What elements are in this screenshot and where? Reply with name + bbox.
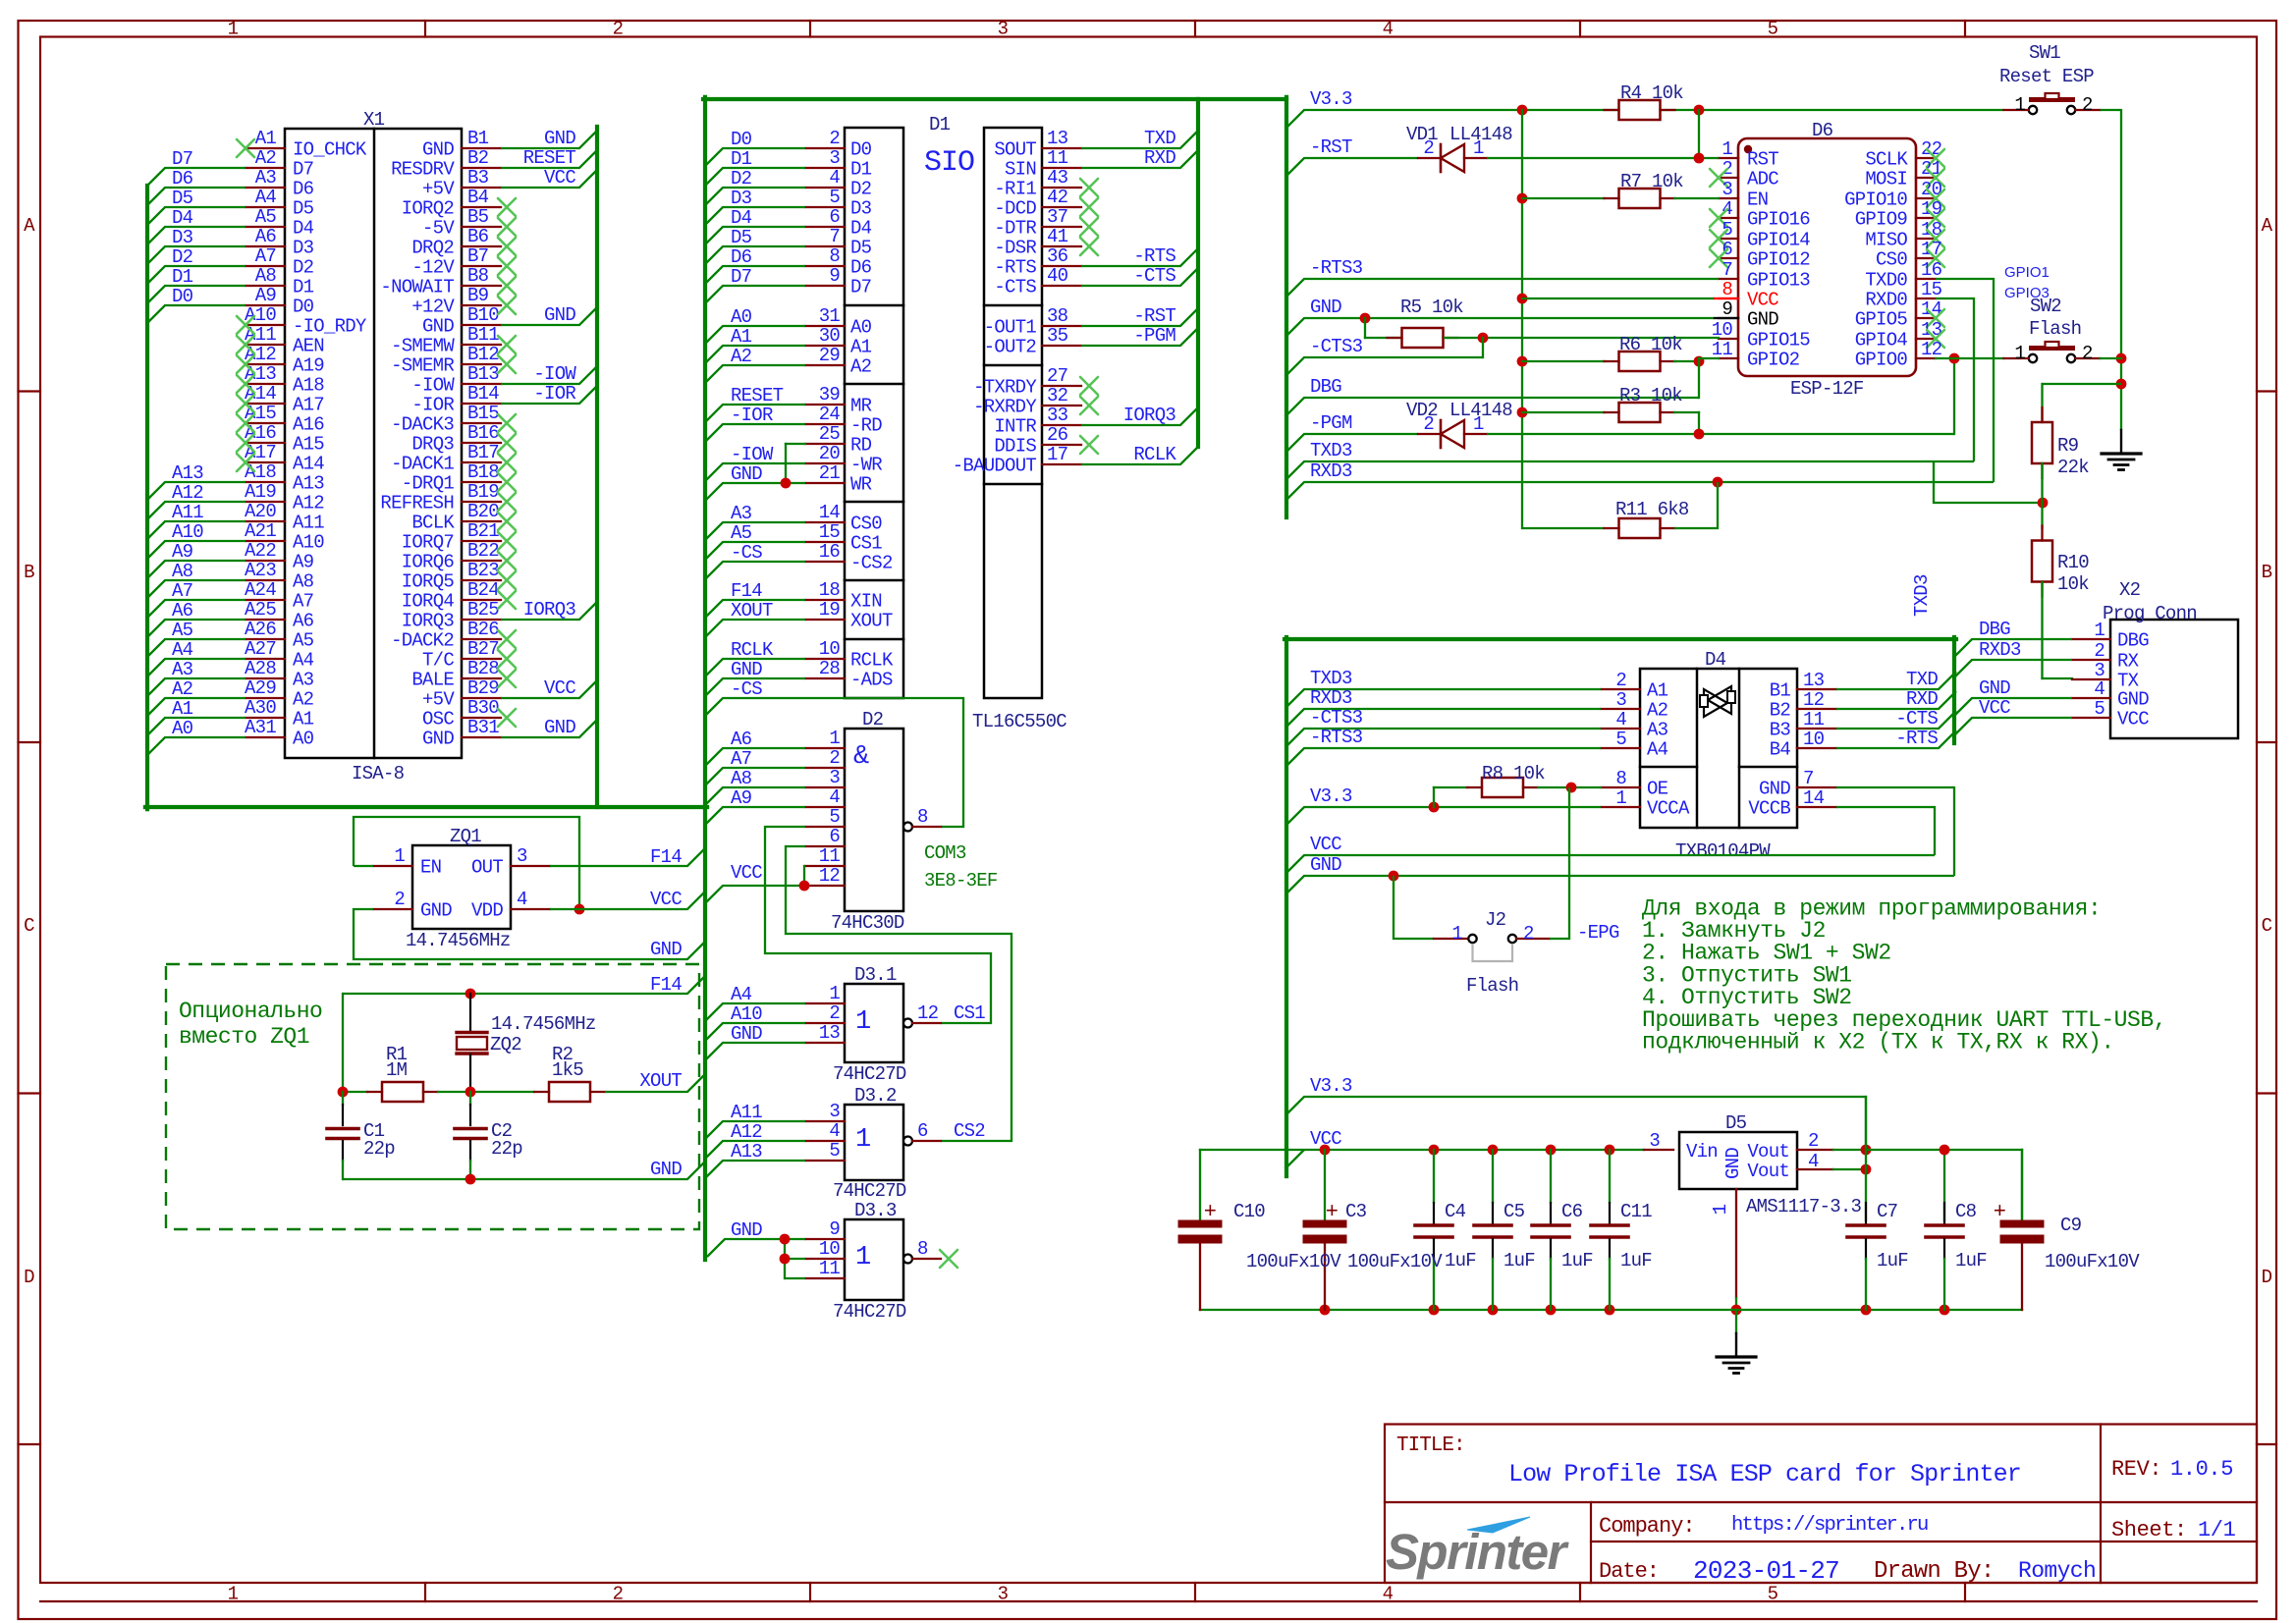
- svg-text:GND: GND: [1722, 1148, 1744, 1179]
- svg-text:4: 4: [1383, 1584, 1394, 1605]
- svg-text:Vout: Vout: [1747, 1141, 1789, 1163]
- svg-text:ISA-8: ISA-8: [352, 763, 405, 784]
- svg-text:18: 18: [1921, 219, 1942, 241]
- svg-text:14: 14: [1921, 298, 1942, 320]
- svg-text:-5V: -5V: [422, 218, 455, 240]
- svg-text:14: 14: [819, 502, 841, 523]
- svg-text:-EPG: -EPG: [1577, 922, 1619, 944]
- svg-text:A0: A0: [731, 306, 752, 328]
- svg-text:A14: A14: [293, 454, 324, 475]
- svg-text:B3: B3: [467, 167, 489, 189]
- svg-text:RXD3: RXD3: [1979, 639, 2021, 661]
- svg-text:22p: 22p: [491, 1138, 522, 1160]
- svg-text:Sprinter: Sprinter: [1386, 1524, 1569, 1580]
- svg-text:8: 8: [829, 245, 840, 267]
- svg-text:GND: GND: [731, 463, 762, 485]
- svg-text:CS2: CS2: [954, 1120, 985, 1142]
- svg-text:D4: D4: [850, 218, 872, 240]
- svg-text:EN: EN: [420, 857, 441, 879]
- svg-text:D3: D3: [850, 198, 872, 220]
- svg-text:1: 1: [855, 1243, 870, 1272]
- svg-text:T/C: T/C: [422, 650, 454, 672]
- svg-text:R8 10k: R8 10k: [1482, 763, 1545, 784]
- svg-text:21: 21: [1921, 158, 1942, 180]
- svg-text:2: 2: [1423, 413, 1434, 435]
- svg-text:C4: C4: [1445, 1201, 1466, 1222]
- svg-text:D5: D5: [850, 238, 872, 259]
- svg-text:A11: A11: [293, 513, 324, 534]
- svg-text:5: 5: [1768, 1584, 1778, 1605]
- svg-text:C: C: [24, 915, 34, 937]
- svg-text:B10: B10: [467, 304, 499, 326]
- svg-text:IORQ4: IORQ4: [402, 591, 455, 613]
- svg-text:B20: B20: [467, 501, 499, 522]
- svg-text:VCC: VCC: [1310, 834, 1341, 855]
- svg-text:-RTS: -RTS: [1895, 728, 1938, 749]
- svg-text:1/1: 1/1: [2198, 1518, 2236, 1542]
- svg-text:1: 1: [2014, 94, 2025, 116]
- svg-text:-RI1: -RI1: [994, 179, 1036, 200]
- svg-text:14.7456MHz: 14.7456MHz: [406, 930, 511, 951]
- svg-text:33: 33: [1047, 405, 1068, 426]
- svg-text:28: 28: [819, 658, 841, 679]
- svg-text:-DRQ1: -DRQ1: [402, 473, 455, 495]
- svg-text:9: 9: [829, 265, 840, 287]
- svg-text:A1: A1: [731, 326, 752, 348]
- svg-text:A1: A1: [172, 698, 193, 720]
- svg-text:D7: D7: [293, 159, 313, 181]
- svg-text:R7 10k: R7 10k: [1620, 171, 1683, 192]
- svg-text:RXD0: RXD0: [1865, 290, 1907, 311]
- svg-text:A1: A1: [850, 337, 872, 358]
- svg-text:1: 1: [855, 1125, 870, 1155]
- svg-text:A9: A9: [731, 787, 752, 809]
- svg-text:RST: RST: [1747, 149, 1778, 171]
- svg-text:VCC: VCC: [650, 889, 682, 910]
- svg-text:D2: D2: [293, 257, 314, 279]
- svg-text:ADC: ADC: [1747, 169, 1778, 190]
- svg-text:VCC: VCC: [544, 677, 575, 699]
- svg-text:1: 1: [394, 845, 405, 867]
- svg-text:-DACK1: -DACK1: [391, 454, 454, 475]
- svg-text:D3.1: D3.1: [854, 964, 897, 986]
- svg-text:A2: A2: [1647, 700, 1668, 722]
- svg-text:GND: GND: [422, 316, 454, 338]
- svg-text:OSC: OSC: [422, 709, 454, 730]
- svg-text:-SMEMW: -SMEMW: [391, 336, 455, 357]
- svg-text:32: 32: [1047, 385, 1068, 406]
- svg-text:2: 2: [1523, 923, 1534, 945]
- svg-text:15: 15: [819, 521, 841, 543]
- svg-text:Romych: Romych: [2018, 1558, 2096, 1584]
- svg-text:V3.3: V3.3: [1310, 785, 1352, 807]
- svg-text:1: 1: [228, 19, 239, 40]
- svg-text:26: 26: [1047, 424, 1068, 446]
- svg-text:D0: D0: [172, 286, 193, 307]
- svg-text:Vout: Vout: [1747, 1161, 1789, 1182]
- svg-text:SIN: SIN: [1005, 159, 1036, 181]
- svg-text:2: 2: [613, 19, 624, 40]
- svg-text:GPIO1: GPIO1: [2004, 264, 2050, 281]
- svg-text:13: 13: [819, 1022, 841, 1044]
- svg-text:-OUT1: -OUT1: [984, 317, 1037, 339]
- svg-text:+5V: +5V: [422, 689, 455, 711]
- svg-text:DBG: DBG: [1310, 376, 1341, 398]
- svg-text:ZQ1: ZQ1: [450, 826, 481, 847]
- svg-text:4: 4: [2094, 678, 2105, 700]
- svg-text:100uFx10V: 100uFx10V: [1246, 1251, 1341, 1272]
- svg-text:1uF: 1uF: [1561, 1250, 1593, 1271]
- svg-text:MR: MR: [850, 396, 872, 417]
- svg-text:D3.3: D3.3: [854, 1200, 897, 1221]
- svg-text:INTR: INTR: [994, 416, 1036, 438]
- svg-text:D2: D2: [850, 179, 872, 200]
- svg-text:3: 3: [517, 845, 527, 867]
- svg-text:C10: C10: [1233, 1201, 1265, 1222]
- svg-text:2: 2: [829, 747, 840, 769]
- svg-text:B30: B30: [467, 697, 499, 719]
- svg-text:REV:: REV:: [2111, 1457, 2161, 1482]
- svg-text:4: 4: [829, 786, 840, 808]
- svg-text:IORQ2: IORQ2: [402, 198, 455, 220]
- svg-text:3: 3: [1615, 689, 1626, 711]
- svg-text:подключенный к X2 (TX к TX,RX: подключенный к X2 (TX к TX,RX к RX).: [1642, 1030, 2114, 1055]
- svg-text:GND: GND: [544, 304, 575, 326]
- svg-text:BALE: BALE: [411, 670, 454, 691]
- svg-text:GND: GND: [422, 729, 454, 750]
- svg-text:+5V: +5V: [422, 179, 455, 200]
- svg-text:RX: RX: [2117, 651, 2140, 673]
- svg-text:1.0.5: 1.0.5: [2170, 1457, 2233, 1482]
- svg-text:VCC: VCC: [544, 167, 575, 189]
- svg-text:B9: B9: [467, 285, 489, 306]
- svg-text:+: +: [1994, 1200, 2005, 1224]
- svg-text:GPIO10: GPIO10: [1844, 189, 1907, 211]
- svg-text:GPIO4: GPIO4: [1855, 330, 1908, 352]
- svg-text:12: 12: [917, 1002, 939, 1024]
- svg-text:VDD: VDD: [471, 900, 503, 922]
- svg-text:A2: A2: [172, 678, 193, 700]
- svg-text:GND: GND: [2117, 689, 2149, 711]
- svg-text:12: 12: [1803, 689, 1825, 711]
- svg-text:A9: A9: [293, 552, 314, 573]
- svg-text:D4: D4: [293, 218, 314, 240]
- svg-text:D7: D7: [172, 148, 192, 170]
- svg-text:B3: B3: [1770, 720, 1791, 741]
- svg-text:MOSI: MOSI: [1865, 169, 1907, 190]
- svg-text:B22: B22: [467, 540, 499, 562]
- svg-text:2: 2: [2082, 343, 2093, 364]
- svg-text:GND: GND: [1759, 779, 1790, 800]
- svg-text:31: 31: [819, 305, 841, 327]
- svg-text:GND: GND: [1310, 297, 1341, 318]
- svg-text:1uF: 1uF: [1955, 1250, 1987, 1271]
- svg-text:D7: D7: [731, 266, 751, 288]
- svg-text:B27: B27: [467, 638, 499, 660]
- svg-text:A10: A10: [731, 1003, 762, 1025]
- svg-text:REFRESH: REFRESH: [380, 493, 454, 514]
- svg-text:GND: GND: [1747, 309, 1778, 331]
- svg-text:B6: B6: [467, 226, 489, 247]
- svg-text:VCC: VCC: [731, 862, 762, 884]
- svg-text:GND: GND: [544, 128, 575, 149]
- svg-text:25: 25: [819, 423, 841, 445]
- svg-text:D2: D2: [172, 246, 193, 268]
- svg-text:BCLK: BCLK: [411, 513, 455, 534]
- svg-text:SW1: SW1: [2029, 42, 2060, 64]
- svg-text:A8: A8: [293, 571, 314, 593]
- svg-text:B12: B12: [467, 344, 499, 365]
- svg-text:1: 1: [1451, 923, 1462, 945]
- svg-text:4: 4: [1615, 709, 1626, 730]
- svg-text:A5: A5: [255, 206, 277, 228]
- svg-text:AEN: AEN: [293, 336, 324, 357]
- svg-text:13: 13: [1803, 670, 1825, 691]
- svg-text:Drawn By:: Drawn By:: [1874, 1558, 1994, 1585]
- svg-text:TXD3: TXD3: [1911, 574, 1933, 617]
- svg-text:RCLK: RCLK: [850, 650, 894, 672]
- svg-text:A3: A3: [1647, 720, 1668, 741]
- svg-text:-IOW: -IOW: [731, 444, 774, 465]
- svg-text:1: 1: [855, 1007, 870, 1037]
- svg-text:D1: D1: [731, 148, 752, 170]
- svg-text:DDIS: DDIS: [994, 436, 1036, 458]
- svg-text:3: 3: [829, 147, 840, 169]
- svg-text:-IOR: -IOR: [731, 405, 773, 426]
- svg-text:-RTS3: -RTS3: [1310, 727, 1363, 748]
- svg-text:DRQ2: DRQ2: [411, 238, 454, 259]
- svg-text:9: 9: [829, 1218, 840, 1240]
- svg-text:-IO_RDY: -IO_RDY: [293, 316, 367, 338]
- svg-text:R5 10k: R5 10k: [1400, 297, 1463, 318]
- svg-text:DBG: DBG: [2117, 630, 2149, 652]
- svg-text:-PGM: -PGM: [1310, 412, 1352, 434]
- svg-text:D6: D6: [731, 246, 752, 268]
- svg-text:B11: B11: [467, 324, 499, 346]
- svg-text:A30: A30: [245, 697, 276, 719]
- svg-text:X2: X2: [2119, 579, 2141, 601]
- svg-text:B8: B8: [467, 265, 489, 287]
- svg-text:27: 27: [1047, 365, 1067, 387]
- svg-text:C5: C5: [1503, 1201, 1525, 1222]
- svg-text:7: 7: [829, 226, 840, 247]
- svg-text:DRQ3: DRQ3: [411, 434, 454, 456]
- svg-text:A0: A0: [293, 729, 314, 750]
- svg-text:1: 1: [829, 983, 840, 1004]
- svg-text:1: 1: [829, 728, 840, 749]
- svg-text:12: 12: [819, 865, 841, 887]
- svg-text:21: 21: [819, 462, 841, 484]
- svg-text:19: 19: [819, 599, 841, 621]
- svg-text:SIO: SIO: [924, 146, 974, 180]
- svg-text:-CTS3: -CTS3: [1310, 336, 1363, 357]
- svg-text:-NOWAIT: -NOWAIT: [380, 277, 454, 298]
- svg-text:3: 3: [1649, 1130, 1660, 1152]
- svg-text:-RD: -RD: [850, 415, 882, 437]
- svg-text:20: 20: [1921, 179, 1942, 200]
- svg-text:-DACK2: -DACK2: [391, 630, 454, 652]
- svg-text:42: 42: [1047, 187, 1068, 208]
- svg-text:3E8-3EF: 3E8-3EF: [924, 870, 998, 892]
- svg-text:A3: A3: [172, 659, 193, 680]
- svg-text:CS1: CS1: [850, 533, 882, 555]
- svg-text:8: 8: [1615, 768, 1626, 789]
- svg-text:74HC27D: 74HC27D: [833, 1301, 906, 1323]
- svg-text:7: 7: [1803, 768, 1814, 789]
- svg-text:EN: EN: [1747, 189, 1768, 211]
- svg-text:A7: A7: [293, 591, 313, 613]
- svg-text:R6 10k: R6 10k: [1619, 334, 1682, 355]
- svg-text:A12: A12: [172, 482, 203, 504]
- svg-text:OE: OE: [1647, 779, 1668, 800]
- svg-text:D1: D1: [293, 277, 314, 298]
- svg-text:CS1: CS1: [954, 1002, 985, 1024]
- svg-text:-12V: -12V: [411, 257, 455, 279]
- svg-text:1: 1: [1710, 1204, 1731, 1215]
- svg-text:MISO: MISO: [1865, 230, 1907, 251]
- svg-text:GPIO5: GPIO5: [1855, 309, 1908, 331]
- svg-text:1M: 1M: [386, 1059, 408, 1081]
- svg-text:SOUT: SOUT: [994, 139, 1036, 161]
- svg-text:TXD3: TXD3: [1310, 668, 1352, 689]
- svg-text:Prog Conn: Prog Conn: [2103, 603, 2197, 624]
- svg-text:R4 10k: R4 10k: [1620, 82, 1683, 104]
- svg-text:AMS1117-3.3: AMS1117-3.3: [1746, 1196, 1862, 1217]
- svg-text:D1: D1: [172, 266, 193, 288]
- svg-text:D3: D3: [172, 227, 193, 248]
- svg-text:-IOW: -IOW: [411, 375, 455, 397]
- svg-text:B24: B24: [467, 579, 499, 601]
- svg-text:4: 4: [829, 167, 840, 189]
- svg-text:OUT: OUT: [471, 857, 503, 879]
- svg-text:ESP-12F: ESP-12F: [1790, 378, 1864, 400]
- svg-text:GND: GND: [420, 900, 452, 922]
- svg-text:A12: A12: [731, 1121, 762, 1143]
- svg-text:36: 36: [1047, 245, 1068, 267]
- svg-text:+: +: [1204, 1200, 1216, 1224]
- svg-text:RESDRV: RESDRV: [391, 159, 455, 181]
- svg-text:IORQ3: IORQ3: [523, 599, 576, 621]
- svg-text:D4: D4: [731, 207, 752, 229]
- svg-text:GPIO12: GPIO12: [1747, 249, 1810, 271]
- svg-text:-RTS3: -RTS3: [1310, 257, 1363, 279]
- svg-text:&: &: [853, 742, 869, 772]
- svg-text:A19: A19: [245, 481, 276, 503]
- svg-text:D0: D0: [731, 129, 752, 150]
- svg-text:C: C: [2262, 915, 2272, 937]
- svg-text:B4: B4: [1770, 739, 1791, 761]
- svg-text:B31: B31: [467, 717, 499, 738]
- svg-text:17: 17: [1047, 444, 1067, 465]
- svg-text:B1: B1: [467, 128, 489, 149]
- svg-text:-CS: -CS: [731, 678, 762, 700]
- svg-text:A6: A6: [731, 729, 752, 750]
- svg-text:RXD: RXD: [1144, 147, 1175, 169]
- svg-text:2: 2: [1615, 670, 1626, 691]
- svg-text:A4: A4: [172, 639, 193, 661]
- svg-text:GPIO0: GPIO0: [1855, 350, 1908, 371]
- svg-text:GPIO13: GPIO13: [1747, 270, 1810, 292]
- svg-text:WR: WR: [850, 474, 872, 496]
- svg-text:3: 3: [998, 1584, 1009, 1605]
- svg-text:вместо ZQ1: вместо ZQ1: [179, 1024, 309, 1050]
- svg-text:1uF: 1uF: [1445, 1250, 1476, 1271]
- svg-text:A23: A23: [245, 560, 276, 581]
- svg-text:B16: B16: [467, 422, 499, 444]
- svg-text:14: 14: [1803, 787, 1825, 809]
- svg-text:24: 24: [819, 404, 841, 425]
- svg-text:A9: A9: [255, 285, 277, 306]
- svg-text:2: 2: [829, 1002, 840, 1024]
- svg-text:A22: A22: [245, 540, 276, 562]
- svg-text:D4: D4: [1705, 649, 1726, 671]
- svg-text:D6: D6: [293, 179, 314, 200]
- svg-text:1uF: 1uF: [1620, 1250, 1652, 1271]
- svg-text:3: 3: [1722, 179, 1732, 200]
- svg-text:2: 2: [2094, 640, 2105, 662]
- svg-text:TL16C550C: TL16C550C: [972, 711, 1066, 732]
- svg-text:13: 13: [1921, 319, 1942, 341]
- svg-text:11: 11: [1803, 709, 1825, 730]
- svg-text:GND: GND: [1979, 677, 2010, 699]
- svg-text:10k: 10k: [2057, 573, 2089, 595]
- svg-text:A5: A5: [172, 620, 193, 641]
- svg-text:COM3: COM3: [924, 842, 966, 864]
- svg-text:SCLK: SCLK: [1865, 149, 1908, 171]
- svg-text:100uFx10V: 100uFx10V: [2045, 1251, 2140, 1272]
- svg-text:40: 40: [1047, 265, 1068, 287]
- svg-text:GND: GND: [544, 717, 575, 738]
- svg-text:B: B: [2262, 562, 2272, 583]
- svg-text:3: 3: [829, 1101, 840, 1122]
- svg-text:4: 4: [829, 1120, 840, 1142]
- svg-text:XOUT: XOUT: [850, 611, 893, 632]
- svg-text:B2: B2: [1770, 700, 1791, 722]
- svg-text:100uFx10V: 100uFx10V: [1347, 1251, 1443, 1272]
- svg-text:10: 10: [1803, 729, 1825, 750]
- svg-text:R3 10k: R3 10k: [1619, 385, 1682, 406]
- svg-text:IO_CHCK: IO_CHCK: [293, 139, 367, 161]
- svg-text:5: 5: [2094, 698, 2105, 720]
- svg-text:RXD3: RXD3: [1310, 460, 1352, 482]
- svg-text:GPIO3: GPIO3: [2004, 285, 2050, 301]
- svg-text:39: 39: [819, 384, 841, 406]
- svg-text:10: 10: [819, 1238, 841, 1260]
- svg-text:+: +: [1326, 1200, 1338, 1224]
- svg-text:A10: A10: [293, 532, 324, 554]
- svg-text:A18: A18: [293, 375, 324, 397]
- svg-text:A27: A27: [245, 638, 276, 660]
- svg-text:TXD0: TXD0: [1865, 270, 1907, 292]
- svg-text:7: 7: [1722, 259, 1732, 281]
- svg-text:A3: A3: [293, 670, 314, 691]
- svg-text:B13: B13: [467, 363, 499, 385]
- svg-text:-SMEMR: -SMEMR: [391, 355, 454, 377]
- svg-text:GND: GND: [422, 139, 454, 161]
- svg-text:A0: A0: [172, 718, 193, 739]
- svg-text:A10: A10: [172, 521, 203, 543]
- svg-text:B23: B23: [467, 560, 499, 581]
- svg-text:A3: A3: [255, 167, 277, 189]
- svg-text:3: 3: [829, 767, 840, 788]
- svg-text:D4: D4: [172, 207, 193, 229]
- svg-text:38: 38: [1047, 305, 1068, 327]
- svg-text:A2: A2: [293, 689, 314, 711]
- svg-text:Company:: Company:: [1599, 1514, 1695, 1539]
- svg-text:D0: D0: [850, 139, 872, 161]
- svg-text:9: 9: [1722, 298, 1732, 320]
- svg-text:-CS: -CS: [731, 542, 762, 564]
